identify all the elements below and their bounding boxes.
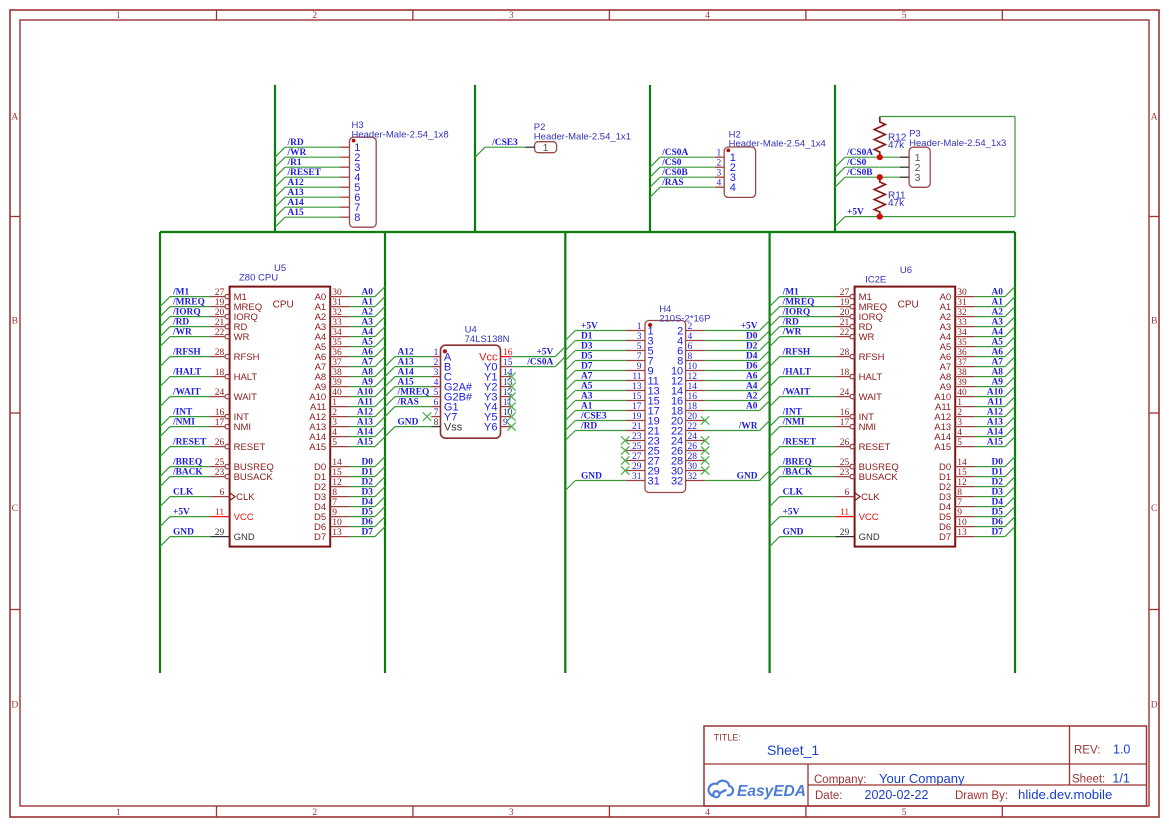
svg-text:30: 30 [688,462,698,472]
svg-text:D3: D3 [992,488,1004,498]
svg-text:/BREQ: /BREQ [172,458,202,468]
wire bus entry D0 [760,331,770,341]
wire /RESET to U6 pin 26 [780,446,836,448]
wire bus entry /BREQ [160,467,170,477]
svg-text:9: 9 [332,508,337,518]
wire bus entry A1 [1005,297,1015,307]
svg-text:13: 13 [957,528,967,538]
svg-text:35: 35 [957,338,967,348]
U5 pin 1 A11 [310,398,350,413]
svg-text:32: 32 [688,472,698,482]
svg-text:/WR: /WR [172,328,192,338]
svg-text:25: 25 [215,458,225,468]
wire /CS0B to H2 pin 3 [660,176,715,178]
wire D3 to H4 pin 5 [575,350,625,352]
wire /HALT to U6 pin 18 [780,376,836,378]
wire bus entry /HALT [770,377,780,387]
wire CLK to U6 pin 6 [780,496,836,498]
Z80 CPU U6 [855,287,956,547]
U5 pin 38 A8 [315,368,350,383]
no-connect X H4 pin 27 [621,456,629,464]
svg-text:47k: 47k [888,140,905,151]
wire bus entry A14 [375,427,385,437]
U4 pin 13 Y2 [484,378,513,393]
svg-text:4: 4 [730,182,736,194]
no-connect X U4 pin 12 [507,392,515,400]
svg-text:34: 34 [332,328,342,338]
U6 pin 9 D5 [939,508,975,523]
svg-text:A15: A15 [987,438,1003,448]
U6 pin 29 GND [835,528,880,543]
svg-text:12: 12 [688,372,698,382]
svg-text:/R1: /R1 [287,158,302,168]
svg-text:D4: D4 [746,352,758,362]
U5 pin 25 BUSREQ [210,458,274,473]
wire bus entry +5V [565,331,575,341]
wire bus entry A8 [1005,367,1015,377]
svg-text:/CSE3: /CSE3 [491,138,518,148]
wire +5V from H4 pin 2 [705,330,760,332]
svg-text:A10: A10 [357,388,373,398]
U4 pin 4 G2A# [431,378,473,393]
wire bus entry A12 [1005,407,1015,417]
svg-text:31: 31 [648,475,660,487]
wire bus entry /RD [770,327,780,337]
U5 pin 5 A15 [309,438,350,453]
EasyEDA logo [709,781,806,800]
svg-text:6: 6 [688,342,693,352]
wire /RFSH to U5 pin 28 [170,356,210,358]
wire bus entry A1 [375,297,385,307]
bus vertical 4 [768,232,770,673]
wire bus entry D2 [760,341,770,351]
wire bus entry A0 [1005,287,1015,297]
U6 pin 25 BUSREQ [835,458,899,473]
svg-text:D2: D2 [362,478,374,488]
svg-text:A2: A2 [362,308,374,318]
svg-text:20: 20 [840,308,850,318]
wire bus entry D2 [375,477,385,487]
wire D6 from U5 pin 10 [350,526,375,528]
U6 pin 21 RD [835,318,872,333]
U5 pin 15 D1 [314,468,350,483]
svg-text:31: 31 [632,472,642,482]
wire bus entry /RESET [770,447,780,457]
wire bus entry /CS0 [650,167,660,177]
bus vertical 3 [564,232,566,673]
wire /RD to H4 pin 21 [575,430,625,432]
wire bus entry A9 [375,377,385,387]
svg-text:16: 16 [688,392,698,402]
wire /INT to U6 pin 16 [780,416,836,418]
wire /RD to H3 pin 1 [285,146,340,148]
svg-text:15: 15 [332,468,342,478]
wire bus entry A6 [1005,347,1015,357]
svg-text:39: 39 [332,378,342,388]
svg-text:28: 28 [215,348,225,358]
wire /NMI to U5 pin 17 [170,426,210,428]
U6 pin 11 VCC [835,508,879,523]
wire /CS0 segment a [845,166,880,168]
wire GND to U5 pin 29 [170,536,210,538]
no-connect X U4 pin 9 [507,422,515,430]
wire A8 from U5 pin 38 [350,376,375,378]
svg-text:A14: A14 [357,428,373,438]
wire bus entry /MREQ [385,397,395,407]
wire bus entry /INT [160,417,170,427]
wire bus entry A14 [275,207,285,217]
svg-text:1/1: 1/1 [1112,772,1129,786]
svg-text:U6: U6 [900,265,912,276]
svg-text:40: 40 [957,388,967,398]
wire bus entry /IORQ [160,317,170,327]
svg-text:A5: A5 [992,338,1004,348]
wire bus entry D4 [760,351,770,361]
wire /RD to U5 pin 21 [170,326,210,328]
wire +5V from U4 pin 16 [511,356,555,358]
svg-text:A15: A15 [288,208,304,218]
wire bus entry A13 [375,417,385,427]
U6 pin 13 D7 [939,528,975,543]
wire A13 to U4 pin 2 [395,366,431,368]
svg-text:CPU: CPU [273,300,294,311]
svg-text:D1: D1 [581,332,593,342]
svg-text:6: 6 [219,488,224,498]
no-connect X U4 pin 13 [507,382,515,390]
wire bus entry GND [565,481,575,491]
decoder U4 74LS138N [441,345,501,438]
wire bus entry A6 [375,347,385,357]
svg-text:35: 35 [332,338,342,348]
resistor R12 47k [874,117,885,158]
wire A1 to H4 pin 17 [575,410,625,412]
Z80 CPU U5 [230,287,331,547]
svg-text:D7: D7 [992,528,1004,538]
wire bus entry D6 [375,517,385,527]
wire bus entry /BACK [770,477,780,487]
svg-text:D5: D5 [992,508,1004,518]
svg-text:25: 25 [840,458,850,468]
svg-text:+5V: +5V [581,322,598,332]
svg-text:D: D [11,700,18,710]
svg-text:12: 12 [957,478,967,488]
svg-text:+5V: +5V [173,508,190,518]
U5 pin 14 D0 [314,458,350,473]
wire bus entry /WR [160,337,170,347]
wire bus entry A11 [375,397,385,407]
wire bus entry A3 [1005,317,1015,327]
wire bus entry A13 [275,197,285,207]
svg-text:5: 5 [902,808,907,818]
svg-text:/WR: /WR [287,148,307,158]
wire A15 from U5 pin 5 [350,446,375,448]
no-connect X H4 pin 28 [701,456,709,464]
svg-text:/M1: /M1 [782,288,799,298]
svg-text:/WR: /WR [782,328,802,338]
svg-text:A4: A4 [746,382,758,392]
wire bus entry A1 [565,411,575,421]
svg-text:33: 33 [332,318,342,328]
svg-text:HALT: HALT [859,372,883,383]
bus trunk horizontal [160,231,1015,233]
svg-text:7: 7 [637,352,642,362]
svg-text:4: 4 [705,808,710,818]
U4 pin 16 Vcc [479,348,513,363]
wire /BACK to U5 pin 23 [170,476,210,478]
wire A4 from U6 pin 34 [975,336,1005,338]
U5 pin 37 A7 [315,358,350,373]
svg-text:D1: D1 [992,468,1004,478]
U6 pin 40 A10 [934,388,975,403]
svg-text:D3: D3 [362,488,374,498]
svg-text:/INT: /INT [172,408,193,418]
svg-text:BUSACK: BUSACK [859,472,899,483]
svg-text:A14: A14 [288,198,304,208]
wire bus entry /NMI [770,427,780,437]
wire bus entry A13 [385,367,395,377]
svg-text:6: 6 [434,398,439,408]
svg-text:21: 21 [840,318,850,328]
svg-text:GND: GND [737,472,758,482]
svg-text:D1: D1 [362,468,374,478]
svg-text:D5: D5 [362,508,374,518]
wire bus entry /IORQ [770,317,780,327]
svg-text:D6: D6 [746,362,758,372]
svg-text:/WAIT: /WAIT [172,388,201,398]
svg-text:22: 22 [840,328,850,338]
U6 pin 1 A11 [935,398,975,413]
svg-text:CLK: CLK [236,492,255,503]
wire bus entry D3 [1005,487,1015,497]
wire bus entry /CS0B [650,177,660,187]
svg-text:11: 11 [632,372,641,382]
svg-text:26: 26 [215,438,225,448]
svg-text:25: 25 [632,442,642,452]
svg-text:D4: D4 [992,498,1004,508]
wire bus entry D7 [1005,527,1015,537]
wire D5 from U6 pin 9 [975,516,1005,518]
svg-text:CPU: CPU [898,300,919,311]
wire bus entry A6 [760,371,770,381]
svg-text:CLK: CLK [173,488,194,498]
svg-text:/CS0A: /CS0A [846,148,873,158]
svg-text:Vss: Vss [444,421,463,433]
wire /CSE3 to P2 pin 1 [485,146,525,148]
U6 pin 14 D0 [939,458,975,473]
svg-text:7: 7 [332,498,337,508]
wire bus entry /CS0 [835,167,845,177]
U5 pin 30 A0 [315,288,350,303]
U6 pin 22 WR [835,328,874,343]
frame row tick left [10,609,20,611]
svg-text:C: C [1151,504,1157,514]
wire D1 from U6 pin 15 [975,476,1005,478]
U6 pin 28 RFSH [835,348,884,363]
no-connect X H4 pin 23 [621,436,629,444]
wire D4 from U6 pin 7 [975,506,1005,508]
U6 pin 23 BUSACK [835,468,898,483]
wire bus entry A7 [565,381,575,391]
svg-text:TITLE:: TITLE: [714,733,741,743]
svg-text:3: 3 [509,11,514,21]
U5 pin 23 BUSACK [210,468,273,483]
wire bus entry GND [160,537,170,547]
wire A7 to H4 pin 11 [575,380,625,382]
bus stem above trunk 1 [274,85,276,232]
U4 pin 14 Y1 [484,368,513,383]
svg-text:A15: A15 [309,442,326,453]
wire A10 from U6 pin 40 [975,396,1005,398]
svg-text:GND: GND [859,532,880,543]
frame row tick right [1149,412,1159,414]
wire bus entry A10 [375,387,385,397]
wire A14 from U6 pin 4 [975,436,1005,438]
wire /BREQ to U5 pin 25 [170,466,210,468]
svg-text:/WR: /WR [738,422,758,432]
svg-text:7: 7 [434,408,439,418]
connector P3 Header-Male-2.54_1x3 [900,147,930,187]
svg-text:/MREQ: /MREQ [782,298,815,308]
wire loop bottom [880,216,1015,218]
svg-text:1: 1 [717,149,722,159]
svg-text:RESET: RESET [859,442,891,453]
svg-text:A9: A9 [992,378,1004,388]
wire bus entry A5 [1005,337,1015,347]
wire bus entry /RESET [275,177,285,187]
no-connect X H4 pin 24 [701,436,709,444]
svg-text:8: 8 [332,488,337,498]
wire bus entry A5 [375,337,385,347]
svg-text:A3: A3 [581,392,593,402]
svg-text:A15: A15 [934,442,951,453]
wire bus entry D1 [565,341,575,351]
wire A13 from U5 pin 3 [350,426,375,428]
svg-text:30: 30 [332,288,342,298]
svg-text:1: 1 [637,322,642,332]
svg-text:5: 5 [332,438,337,448]
svg-text:A8: A8 [992,368,1004,378]
svg-text:3: 3 [717,169,722,179]
svg-text:3: 3 [332,418,337,428]
svg-text:4: 4 [688,332,693,342]
wire bus entry D0 [375,457,385,467]
svg-text:Header-Male-2.54_1x8: Header-Male-2.54_1x8 [352,129,449,140]
svg-text:Drawn By:: Drawn By: [955,790,1008,802]
wire bus entry D5 [1005,507,1015,517]
wire bus entry /RD [275,147,285,157]
wire bus entry A2 [375,307,385,317]
wire D7 from U5 pin 13 [350,536,375,538]
wire D2 from U5 pin 12 [350,486,375,488]
wire R12 top to loop right [880,116,1015,118]
wire D4 from U5 pin 7 [350,506,375,508]
wire bus entry A15 [275,217,285,227]
wire CLK to U5 pin 6 [170,496,210,498]
wire A12 to H3 pin 5 [285,186,340,188]
U5 pin 29 GND [210,528,255,543]
no-connect X U4 pin 11 [507,402,515,410]
wire D6 from H4 pin 10 [705,370,760,372]
svg-text:8: 8 [434,418,439,428]
wire A7 from U6 pin 37 [975,366,1005,368]
svg-text:29: 29 [840,528,850,538]
svg-text:28: 28 [688,452,698,462]
wire A6 from U5 pin 36 [350,356,375,358]
wire bus entry A12 [275,187,285,197]
svg-text:A0: A0 [992,288,1004,298]
U6 pin 17 NMI [835,418,876,433]
svg-text:D0: D0 [746,332,758,342]
svg-text:A0: A0 [746,402,758,412]
svg-text:40: 40 [332,388,342,398]
svg-text:14: 14 [332,458,342,468]
wire A6 from H4 pin 12 [705,380,760,382]
svg-text:2: 2 [312,11,317,21]
svg-text:A5: A5 [581,382,593,392]
svg-text:27: 27 [215,288,225,298]
svg-text:14: 14 [688,382,698,392]
bus stem above trunk 3 [649,85,651,232]
wire D2 from H4 pin 6 [705,350,760,352]
wire bus entry A0 [760,401,770,411]
wire A6 from U6 pin 36 [975,356,1005,358]
wire /RAS to U4 pin 6 [395,406,431,408]
wire D6 from U6 pin 10 [975,526,1005,528]
wire +5V to H4 pin 1 [575,330,625,332]
svg-text:A12: A12 [288,178,304,188]
U4 pin 7 Y7 [431,408,457,423]
svg-text:A14: A14 [398,368,414,378]
U6 pin 3 A13 [934,418,975,433]
svg-text:A12: A12 [398,348,414,358]
svg-text:1: 1 [116,11,121,21]
wire /WR to U5 pin 22 [170,336,210,338]
svg-text:31: 31 [957,298,967,308]
wire bus entry /WAIT [770,397,780,407]
no-connect X H4 pin 20 [701,416,709,424]
svg-text:D2: D2 [746,342,758,352]
wire D5 from U5 pin 9 [350,516,375,518]
wire A5 from U5 pin 35 [350,346,375,348]
svg-text:/RD: /RD [580,422,597,432]
svg-text:24: 24 [840,388,850,398]
svg-text:2: 2 [957,408,962,418]
svg-text:D7: D7 [939,532,951,543]
wire bus entry /M1 [770,297,780,307]
svg-text:A: A [11,112,18,122]
svg-text:/CS0B: /CS0B [661,168,688,178]
svg-text:Header-Male-2.54_1x3: Header-Male-2.54_1x3 [909,138,1006,149]
svg-text:D7: D7 [314,532,326,543]
svg-text:GND: GND [581,472,602,482]
svg-text:32: 32 [957,308,967,318]
svg-text:18: 18 [215,368,225,378]
frame row tick left [10,216,20,218]
wire /WR to U6 pin 22 [780,336,836,338]
svg-text:8: 8 [688,352,693,362]
svg-text:A7: A7 [362,358,374,368]
svg-text:VCC: VCC [234,512,254,523]
svg-text:Date:: Date: [815,790,843,802]
svg-text:A7: A7 [581,372,593,382]
svg-text:RFSH: RFSH [234,352,260,363]
svg-text:/BREQ: /BREQ [782,458,812,468]
svg-text:A11: A11 [357,398,373,408]
bus stem above trunk 4 [834,85,836,232]
wire bus entry D3 [565,351,575,361]
U4 pin 5 G2B# [431,388,473,403]
svg-text:2020-02-22: 2020-02-22 [865,788,929,802]
